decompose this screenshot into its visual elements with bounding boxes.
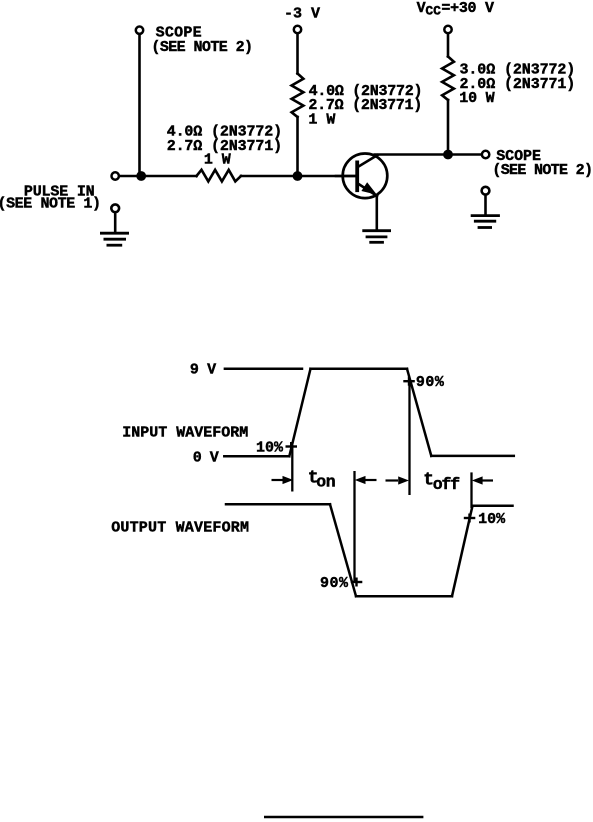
tick output 10% bbox=[464, 517, 476, 519]
node scope ground terminal bbox=[482, 187, 490, 195]
svg-text:(SEE NOTE 1): (SEE NOTE 1) bbox=[0, 196, 101, 213]
measurement line input 90% bbox=[408, 381, 410, 495]
wire terminal to ground bbox=[114, 213, 117, 233]
svg-text:=+30 V: =+30 V bbox=[441, 0, 494, 17]
wire emitter down bbox=[375, 196, 378, 230]
wire -3V to resistor R2 bbox=[296, 34, 299, 74]
svg-text:off: off bbox=[433, 475, 460, 494]
svg-text:0 V: 0 V bbox=[193, 450, 219, 467]
wire 9V level + input top bbox=[225, 368, 302, 371]
svg-text:90%: 90% bbox=[320, 575, 349, 592]
ground (emitter) bbox=[364, 231, 390, 243]
svg-text:1 W: 1 W bbox=[204, 152, 231, 169]
footer rule bbox=[264, 816, 423, 819]
junction base-R2 bbox=[293, 172, 302, 181]
wire scope1 down to base node bbox=[138, 34, 141, 176]
resistor R3 vertical (3.0/2.0 ohm 10 W) bbox=[442, 57, 454, 101]
tick input 10% bbox=[286, 377, 476, 587]
wire output rising edge bbox=[452, 506, 473, 596]
wire input falling edge bbox=[407, 369, 431, 456]
wire collector rail bbox=[375, 153, 482, 156]
wire base rail left bbox=[119, 175, 196, 178]
arrow t_off left bbox=[386, 479, 399, 481]
wire output falling edge bbox=[330, 504, 356, 596]
node -3V terminal bbox=[294, 26, 301, 33]
wire 0V level left bbox=[224, 455, 289, 458]
wire output bottom flat bbox=[356, 595, 452, 598]
wire base rail right bbox=[241, 175, 355, 178]
waveform labels bbox=[111, 362, 506, 593]
svg-text:INPUT WAVEFORM: INPUT WAVEFORM bbox=[122, 425, 248, 442]
svg-text:10 W: 10 W bbox=[459, 90, 494, 107]
svg-text:90%: 90% bbox=[416, 374, 445, 391]
svg-text:10%: 10% bbox=[256, 440, 284, 457]
wire input rising edge bbox=[289, 369, 310, 457]
wire 0V level right bbox=[431, 455, 514, 458]
measurement line input 10% bbox=[291, 445, 293, 492]
svg-text:CC: CC bbox=[425, 4, 441, 19]
circuit labels bbox=[0, 0, 593, 213]
resistor R2 vertical (4.0/2.7 ohm 1 W) bbox=[292, 74, 304, 118]
ground (scope right) bbox=[472, 216, 498, 228]
node SCOPE terminal (top left) bbox=[136, 27, 143, 34]
wire output top left flat bbox=[226, 503, 330, 506]
tick input 90% bbox=[403, 380, 415, 382]
tick output 90% bbox=[351, 581, 363, 583]
wire VCC to resistor R3 bbox=[447, 34, 450, 57]
junction base-scope1 bbox=[137, 172, 146, 181]
svg-text:OUTPUT WAVEFORM: OUTPUT WAVEFORM bbox=[111, 520, 249, 537]
measurement line output 10% bbox=[470, 472, 472, 508]
transistor Q1 bbox=[343, 154, 388, 199]
waveform diagram bbox=[224, 369, 514, 596]
measurement line output 90% bbox=[353, 471, 355, 583]
svg-text:(SEE NOTE 2): (SEE NOTE 2) bbox=[492, 162, 593, 179]
node SCOPE terminal (right) bbox=[482, 151, 489, 158]
svg-text:9 V: 9 V bbox=[190, 362, 216, 379]
arrow t_on right bbox=[364, 479, 377, 481]
wire terminal to ground bbox=[484, 195, 487, 215]
svg-text:V: V bbox=[417, 0, 426, 17]
node VCC terminal bbox=[444, 26, 451, 33]
svg-text:-3 V: -3 V bbox=[284, 6, 320, 23]
wire R2 to base node bbox=[296, 117, 299, 176]
svg-text:1 W: 1 W bbox=[308, 112, 335, 129]
ground (pulse input) bbox=[101, 233, 127, 245]
resistor R1 horizontal (4.0/2.7 ohm 1 W) bbox=[197, 170, 242, 182]
wire R3 to collector node bbox=[447, 100, 450, 155]
arrow t_on left bbox=[272, 477, 494, 484]
wire output top right flat bbox=[473, 505, 513, 508]
node PULSE IN terminal bbox=[112, 172, 119, 179]
node pulse ground terminal bbox=[111, 204, 119, 212]
arrow t_off right bbox=[481, 479, 494, 481]
svg-text:(SEE NOTE 2): (SEE NOTE 2) bbox=[151, 39, 253, 56]
svg-text:on: on bbox=[316, 473, 335, 492]
svg-text:10%: 10% bbox=[478, 511, 506, 528]
junction collector-R3 bbox=[444, 150, 453, 159]
